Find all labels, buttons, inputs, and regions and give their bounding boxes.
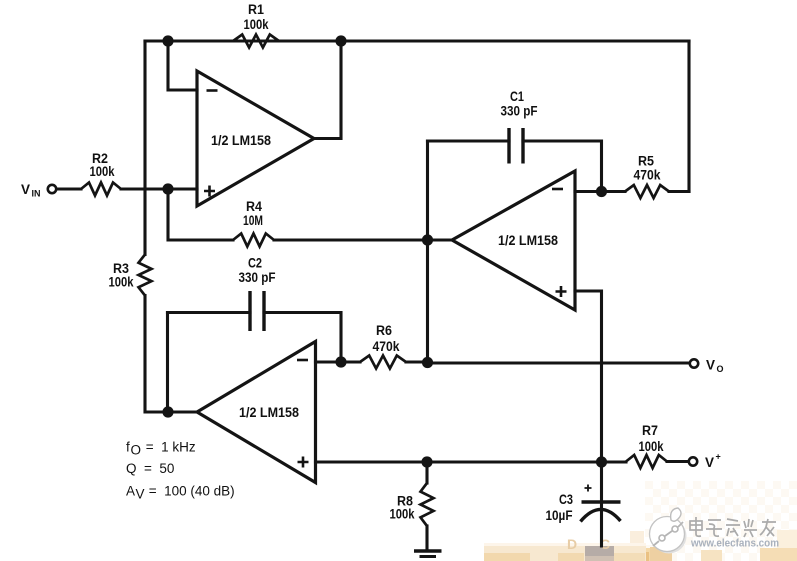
- resistor R5 470k: [625, 185, 669, 198]
- svg-text:10µF: 10µF: [546, 508, 573, 523]
- U2 plus sign: [556, 286, 567, 297]
- svg-text:100k: 100k: [390, 507, 415, 522]
- svg-text:R1: R1: [248, 2, 264, 17]
- svg-text:R5: R5: [638, 154, 654, 169]
- capacitor C3 plates: [581, 502, 621, 522]
- svg-text:O: O: [131, 443, 142, 458]
- svg-text:= 100 (40 dB): = 100 (40 dB): [145, 484, 235, 499]
- node opamp3 inverting junction: [335, 356, 346, 367]
- svg-text:V: V: [21, 182, 30, 197]
- terminal V+: [689, 457, 697, 465]
- U3 minus sign: [297, 359, 308, 362]
- terminal Vin: [48, 185, 56, 193]
- svg-text:O: O: [717, 364, 724, 374]
- wire C2 left branch: [168, 311, 251, 314]
- wire opamp2 inverting stub: [575, 190, 625, 193]
- node opamp2 inverting junction: [596, 186, 607, 197]
- wire node A down to R4: [168, 189, 233, 240]
- wire opamp2 noninverting to bias node: [575, 291, 602, 462]
- svg-text:R6: R6: [376, 323, 392, 338]
- node B lower junction: [422, 357, 433, 368]
- resistor R7 100k: [626, 455, 667, 468]
- op-amp U3: [197, 342, 316, 483]
- wire opamp2 output to node B: [428, 238, 453, 241]
- ground: [414, 551, 442, 557]
- wire R8 bottom lead to ground: [425, 526, 428, 549]
- node B upper junction: [422, 234, 433, 245]
- wire node B to Vo terminal: [428, 361, 690, 364]
- op-amp U1: [197, 71, 314, 206]
- svg-text:330 pF: 330 pF: [239, 270, 276, 285]
- capacitor C2 plates: [250, 291, 264, 331]
- svg-text:C2: C2: [248, 256, 262, 271]
- node top-right junction: [335, 35, 346, 46]
- elecfans chinese glyphs (approximated): [690, 517, 776, 537]
- svg-text:D: D: [567, 536, 577, 552]
- wire opamp3 inverting stub to R6: [316, 360, 361, 363]
- svg-text:IN: IN: [32, 189, 41, 199]
- wire R2 to opamp1 noninverting input: [121, 187, 197, 190]
- logo leaf: [671, 508, 681, 521]
- svg-text:= 1 kHz: = 1 kHz: [142, 440, 196, 455]
- svg-text:1/2 LM158: 1/2 LM158: [211, 133, 271, 148]
- node junction dots: [162, 35, 607, 467]
- svg-text:C3: C3: [559, 492, 573, 507]
- U2 minus sign: [552, 188, 563, 191]
- wire C2 right branch down to opamp3 inverting node: [264, 313, 341, 363]
- wire Vin to R2: [56, 187, 81, 190]
- svg-text:100k: 100k: [639, 439, 664, 454]
- wire R5 right: [669, 190, 689, 193]
- svg-text:R7: R7: [642, 423, 658, 438]
- wire node B vertical: [426, 141, 429, 362]
- svg-text:R4: R4: [246, 199, 262, 214]
- svg-text:+: +: [716, 452, 721, 462]
- svg-text:100k: 100k: [109, 275, 134, 290]
- wire opamp1 output to top rail: [314, 41, 341, 139]
- logo trace: [653, 541, 659, 546]
- U1 plus sign: [204, 186, 215, 197]
- svg-text:1/2 LM158: 1/2 LM158: [498, 233, 558, 248]
- resistor R8 100k: [421, 483, 434, 526]
- node opamp3 output junction: [162, 406, 173, 417]
- svg-text:330 pF: 330 pF: [501, 104, 538, 119]
- wire C1 right branch: [523, 141, 602, 192]
- wire left vertical upper (to R3): [143, 41, 146, 255]
- node bias C3 junction: [596, 456, 607, 467]
- wire opamp3 noninverting to R7: [316, 460, 627, 463]
- node bias R8 junction: [421, 456, 432, 467]
- svg-text:V: V: [705, 455, 714, 470]
- svg-text:Q = 50: Q = 50: [126, 461, 174, 476]
- svg-text:470k: 470k: [373, 339, 400, 354]
- wire R4 to node B: [274, 238, 428, 241]
- wire top rail: [145, 39, 689, 42]
- node top-left junction: [162, 35, 173, 46]
- wire right vertical from top rail to R5: [687, 41, 690, 192]
- wire R7 to V+ terminal: [667, 460, 689, 463]
- U1 minus sign: [207, 89, 218, 92]
- wire R6 to node B: [406, 360, 428, 363]
- capacitor C1 plates: [509, 128, 523, 164]
- resistor R4 10M: [233, 234, 274, 247]
- svg-text:100k: 100k: [244, 17, 269, 32]
- svg-text:C1: C1: [510, 89, 524, 104]
- U3 plus sign: [298, 457, 309, 468]
- svg-text:1/2 LM158: 1/2 LM158: [239, 405, 299, 420]
- op-amp U2: [452, 171, 575, 310]
- svg-text:A: A: [126, 484, 135, 499]
- svg-text:f: f: [126, 440, 130, 455]
- watermark checker background bottom-right: [645, 481, 797, 561]
- watermark orange squares: [630, 531, 644, 548]
- watermark tan band bottom-center: [484, 543, 646, 548]
- wire opamp1 inverting input from top rail: [168, 41, 197, 90]
- wire C1 left branch: [428, 139, 510, 142]
- elecfans logo circle: [652, 519, 687, 554]
- wire C3 vertical lead: [600, 462, 603, 546]
- resistor R1 100k: [233, 35, 279, 48]
- resistor R3 100k: [139, 255, 152, 296]
- svg-text:www.elecfans.com: www.elecfans.com: [690, 538, 779, 550]
- C3 plus sign: [585, 485, 592, 492]
- node Vin junction: [162, 183, 173, 194]
- wire left vertical lower (R3 to opamp3 output): [145, 296, 197, 413]
- wire C2 left down to opamp3 output node: [166, 313, 169, 413]
- resistor R2 100k: [81, 183, 121, 196]
- svg-text:10M: 10M: [243, 213, 263, 228]
- wire R8 top lead: [425, 462, 428, 483]
- svg-text:100k: 100k: [90, 164, 115, 179]
- svg-text:V: V: [706, 358, 715, 373]
- svg-text:V: V: [136, 487, 145, 502]
- svg-text:470k: 470k: [634, 168, 661, 183]
- terminal Vo: [690, 359, 698, 367]
- resistor R6 470k: [360, 356, 406, 369]
